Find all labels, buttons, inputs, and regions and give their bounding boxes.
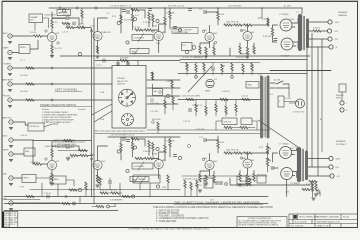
wire shielded cable dash-dot [95, 130, 145, 132]
jack J4 TAPE AMP [8, 82, 12, 86]
wire V1R cathode [51, 170, 53, 183]
resistor R82 [122, 195, 130, 197]
svg-text:R-69 1K: R-69 1K [195, 185, 202, 187]
wire network [66, 27, 91, 29]
capacitor C8 [173, 27, 176, 29]
svg-text:R-75: R-75 [259, 147, 263, 149]
ground J8 [9, 184, 13, 186]
wire tone network [121, 8, 145, 33]
jack J5 PHONO [8, 98, 12, 102]
svg-text:R-41: R-41 [250, 66, 254, 68]
pin circle V4-1 [202, 30, 204, 32]
resistor R24 (vertical) [213, 47, 215, 55]
wire bus y189.5 [30, 189, 180, 191]
node test point 10 [126, 169, 129, 172]
capacitor C39 box top [126, 63, 129, 65]
wire J5 to selector [12, 99, 112, 101]
resistor R98 (vertical) right of box [172, 96, 174, 104]
tube V3 12AX7 [154, 31, 163, 40]
svg-text:92V: 92V [56, 33, 60, 35]
svg-text:C-9: C-9 [199, 9, 202, 11]
svg-text:92V: 92V [56, 161, 60, 163]
resistor R26 (vertical) [246, 47, 248, 55]
wire feedback long left channel [60, 48, 310, 56]
svg-text:T-1: T-1 [296, 12, 299, 14]
resistor R102 (vertical) bl [85, 182, 87, 190]
capacitor C22 [66, 145, 69, 147]
resistor R85 (vertical) [190, 182, 192, 190]
wire grid row [224, 24, 258, 26]
svg-text:SPEAKER: SPEAKER [338, 11, 348, 14]
capacitor C38 box top [116, 63, 119, 65]
box bias network [246, 82, 259, 89]
ground V1R [50, 183, 54, 185]
resistor R9 [131, 9, 139, 11]
svg-text:R-25 R-26 22K: R-25 R-26 22K [236, 57, 249, 59]
speaker terminal 4 ohm [328, 37, 332, 41]
svg-text:R-17 100K: R-17 100K [166, 13, 175, 15]
T2 core [302, 149, 303, 181]
box preamp out top-left [29, 14, 43, 23]
tube V5 phase inverter [243, 31, 252, 40]
svg-text:FEEDBACK: FEEDBACK [240, 53, 250, 56]
fuse box F1 [278, 96, 284, 107]
node circle bl [65, 195, 67, 197]
svg-text:R-87: R-87 [248, 179, 252, 181]
svg-text:R-35: R-35 [185, 66, 189, 68]
capacitor C34 on B+ rail [188, 9, 191, 11]
svg-text:170V: 170V [101, 161, 106, 163]
svg-text:S-3: S-3 [46, 121, 49, 123]
ground J9 [9, 209, 13, 211]
ground J4 [8, 90, 12, 92]
legend box bottom-left [2, 212, 18, 229]
wire V4R bottom [200, 171, 214, 175]
box level set L [19, 45, 30, 54]
node test point 5 [156, 19, 159, 22]
svg-text:V-7 6BQ5: V-7 6BQ5 [279, 144, 289, 146]
resistor R101 bottom-left [26, 195, 34, 197]
wire splitter bottom R [240, 171, 254, 175]
node circle tuner line [51, 67, 53, 69]
resistor R89 (vertical) [311, 183, 313, 191]
node junction dot [225, 183, 228, 186]
svg-text:470K 1W: 470K 1W [224, 121, 232, 123]
wire feedback R [309, 182, 317, 192]
wire long vertical x318 [317, 62, 319, 176]
wire bottom-left nets [36, 178, 74, 196]
svg-text:4 Ω: 4 Ω [335, 38, 339, 41]
resistor R41 (vertical) [251, 63, 253, 71]
node on heater bus [73, 202, 76, 205]
pot circle mid top [185, 50, 189, 54]
node test point 8 [117, 150, 120, 153]
pin circle small b [82, 26, 84, 28]
ground J3 [8, 74, 12, 76]
svg-text:G: G [336, 47, 338, 49]
svg-text:TREBLE: TREBLE [52, 179, 60, 181]
wire J8 right [13, 177, 22, 179]
switch lever [44, 124, 58, 127]
svg-text:8 Ω: 8 Ω [336, 166, 340, 169]
svg-text:R-10: R-10 [112, 16, 116, 18]
arrow pot wiper [138, 33, 144, 42]
wire T3 primary to switch [270, 83, 275, 88]
wire J10 to eq [13, 122, 28, 125]
svg-text:R-38: R-38 [221, 66, 225, 68]
pin circle V4-2 [214, 41, 216, 43]
wire long bus y133 [95, 133, 260, 135]
svg-text:L: L [346, 103, 347, 105]
wire misc mid [153, 72, 173, 114]
resistor R37 (vertical) [203, 63, 205, 71]
svg-text:C-25 .02: C-25 .02 [183, 121, 190, 123]
node dot row [195, 76, 198, 79]
wire diagonal into selector 2 [94, 111, 112, 122]
resistor R18 (vertical) [217, 12, 219, 20]
box bass control L [130, 49, 149, 54]
svg-text:F: F [279, 101, 281, 103]
underline table heading [40, 106, 92, 108]
pin circle V4R-1 [202, 158, 204, 160]
power transformer T3 winding right [267, 77, 270, 137]
svg-text:R-80 470K R-81 47K: R-80 470K R-81 47K [100, 190, 117, 192]
jack J8 [9, 176, 13, 180]
ground at J1 [8, 42, 12, 44]
wire long left rail down (x91.5) [91, 28, 93, 197]
node test point 14 [131, 195, 134, 198]
resistor R45 (vertical) [195, 104, 197, 112]
svg-text:1 STEREO NORMAL: 1 STEREO NORMAL STEREO [42, 111, 69, 114]
cathode resistor R52 (vertical) [51, 173, 53, 181]
svg-text:R-72 R-73 22K: R-72 R-73 22K [236, 186, 249, 188]
pin circle small a [67, 25, 69, 27]
resistor R50 [34, 163, 42, 165]
svg-text:R-30 8.2: R-30 8.2 [313, 28, 320, 30]
pin circle V3R-1 [152, 157, 154, 159]
svg-text:4 Ω: 4 Ω [337, 175, 341, 178]
box bass R [130, 177, 149, 182]
resistor R12 (vertical) [148, 12, 150, 20]
svg-text:R-21 470K 360V: R-21 470K 360V [228, 6, 242, 8]
svg-text:C-3 .05: C-3 .05 [62, 32, 68, 34]
svg-text:R-29 470K: R-29 470K [263, 36, 272, 38]
wire V4 leads [209, 25, 211, 47]
svg-text:C-8 .005: C-8 .005 [133, 27, 140, 29]
capacitor C41 on tuner line [26, 67, 34, 69]
svg-text:R-34 1M: R-34 1M [166, 81, 173, 83]
contact circle right of box 3 [152, 121, 155, 124]
svg-text:R-6 470K: R-6 470K [20, 91, 28, 93]
svg-text:R-79: R-79 [20, 187, 24, 189]
svg-text:T-3: T-3 [258, 75, 261, 77]
node test point 15 [156, 185, 159, 188]
svg-text:C-20 .05: C-20 .05 [20, 135, 27, 137]
svg-text:LOUDNESS: LOUDNESS [134, 166, 145, 168]
ground cathode V1 [50, 56, 54, 58]
wire J1 to R1 [12, 35, 33, 37]
svg-text:F TREBLE: F TREBLE [136, 179, 146, 181]
wire J3 to selector [12, 67, 112, 69]
wire mid drops to bus [196, 62, 252, 64]
ground at J2 [8, 58, 12, 60]
T1 secondary winding [306, 20, 309, 48]
node dot rail 2 [217, 7, 219, 9]
resistor R73 (vertical) [246, 175, 248, 183]
ground J7 [9, 160, 13, 162]
svg-text:R-13 47K: R-13 47K [143, 22, 151, 24]
pot circle row C [187, 144, 190, 147]
box remote speaker [339, 84, 346, 92]
contact circle right of box 1 [151, 99, 154, 102]
wire tone net R [121, 137, 145, 160]
wire feedback long R [230, 178, 310, 185]
svg-text:SHEET 1 OF 1: SHEET 1 OF 1 [317, 225, 331, 227]
box loudness-volume L [132, 35, 153, 41]
resistor R21 [244, 24, 252, 26]
resistor R32 (vertical) [151, 72, 153, 80]
resistor R77 feedback R [309, 180, 317, 182]
svg-text:R-5 470K: R-5 470K [20, 75, 28, 77]
wire tap 4 R [308, 175, 330, 177]
resistor R61 [135, 157, 143, 159]
wire heavy bus 2 [178, 73, 307, 75]
junction circle rail 2 [76, 7, 78, 9]
svg-text:Function: Function [78, 108, 86, 111]
resistor R6 [77, 26, 85, 28]
resistor R76 (vertical) bias pot 2 [266, 158, 268, 166]
jack J2 TAPE L [8, 50, 12, 54]
wire secondary tap 16 ohm [309, 21, 328, 23]
capacitor C37 bottom mid [108, 181, 111, 183]
resistor R65 (vertical) [217, 140, 219, 148]
node test point 3 [133, 17, 136, 20]
wire heavy bus y73 [270, 70, 331, 72]
wire secondary common [309, 46, 329, 48]
capacitor C16 [188, 109, 191, 111]
svg-text:SELECTOR: SELECTOR [117, 81, 128, 83]
wire V8R cathode down [286, 180, 288, 197]
capacitor C40 [73, 22, 75, 25]
wire V7R plate to OPT2 [292, 149, 297, 155]
svg-text:LEFT CHANNEL: LEFT CHANNEL [55, 88, 78, 92]
wire J7 net [13, 140, 47, 164]
svg-text:R-50 100K: R-50 100K [30, 162, 39, 164]
wire bias pots [268, 143, 271, 172]
wire lower mid drops [196, 100, 236, 117]
wire V1 plate to coupling [52, 17, 66, 19]
resistor R36 (vertical) [195, 64, 197, 72]
svg-text:C-14 .1: C-14 .1 [96, 65, 102, 67]
ground V2 cathode [96, 56, 100, 58]
svg-text:LEVEL: LEVEL [20, 47, 26, 49]
svg-text:TAPE OUT: TAPE OUT [58, 12, 68, 15]
svg-text:160V: 160V [213, 161, 218, 163]
wire V4R leads [209, 153, 211, 175]
resistor R58 (vertical) [131, 142, 133, 150]
box filter can 3 [257, 175, 266, 183]
resistor R56 [131, 138, 139, 140]
wire to output grids R [258, 150, 278, 168]
svg-text:AUX: AUX [3, 135, 8, 138]
resistor R60 (vertical) [152, 143, 154, 151]
resistor R48 (vertical) [225, 106, 227, 114]
ground splitter [246, 56, 250, 58]
box channel b net 2 [241, 118, 252, 125]
wire tone mid [135, 20, 159, 30]
capacitor C24 [126, 140, 129, 142]
box f treble [133, 175, 160, 183]
wire V2 plate up [98, 18, 108, 31]
T1 core [303, 16, 304, 50]
jack J7 TAPE R [9, 152, 13, 156]
svg-text:PHONO: PHONO [2, 96, 10, 98]
resistor R23 (vertical) [205, 47, 207, 55]
svg-text:COPYRIGHT 1958 ALLIED RADIO C: COPYRIGHT 1958 ALLIED RADIO CORP 100 N. … [128, 228, 210, 231]
tube V2R [93, 160, 102, 169]
svg-text:SYSTEM R: SYSTEM R [336, 144, 347, 146]
wire: bottom heater bus 2 [4, 203, 268, 205]
svg-text:117V 60∼ AC: 117V 60∼ AC [293, 111, 305, 114]
svg-text:5. TONE RECORD: 5. TONE RECORD [156, 220, 177, 223]
node test point 2 [117, 21, 120, 24]
wire v1 19 line [52, 18, 66, 20]
svg-text:LOUDNESS: LOUDNESS [134, 38, 145, 40]
contact circle right of box 2 [159, 91, 162, 94]
cathode resistor R4 [51, 45, 53, 53]
svg-text:STEREO: STEREO [117, 78, 126, 80]
svg-text:C-17 .005: C-17 .005 [150, 111, 158, 113]
resistor R64 (vertical) [169, 139, 171, 147]
wire rail row C [108, 136, 180, 138]
wire V5R leads [247, 153, 249, 173]
tube V5R phase inverter [243, 159, 252, 168]
ground J6 [9, 146, 13, 148]
plate resistor R51 (vertical) [51, 149, 53, 157]
node circle tape line [51, 83, 53, 85]
resistor R49 (vertical) [235, 104, 237, 112]
svg-text:R-15 270K C-11 .05: R-15 270K C-11 .05 [168, 6, 184, 8]
resistor R44 [242, 98, 250, 100]
svg-text:C-35 .02: C-35 .02 [44, 193, 51, 195]
ground J5 [8, 106, 12, 108]
output tube V7R 6BQ5 [280, 147, 292, 159]
svg-text:S-2: S-2 [270, 94, 273, 96]
svg-text:R-64 100K: R-64 100K [166, 141, 175, 143]
wire drop x80 [79, 197, 81, 204]
pot circle mid top 2 [192, 46, 196, 50]
capacitor C26 [173, 155, 176, 157]
wire bottom mid extra [100, 177, 110, 190]
svg-text:98V: 98V [251, 32, 255, 34]
pot arrow bass R [134, 176, 139, 183]
svg-text:C-6: C-6 [106, 13, 109, 15]
svg-text:V-5B: V-5B [90, 154, 95, 156]
svg-text:BAL: BAL [154, 90, 157, 93]
resistor R94 (vertical) [157, 122, 159, 130]
wire rc net [69, 146, 93, 156]
ground below V1R [66, 158, 70, 160]
resistor R14 [135, 29, 143, 31]
svg-text:FEEDBACK PAIR: FEEDBACK PAIR [174, 31, 189, 34]
svg-text:R-83: R-83 [162, 187, 166, 189]
wire V3 plate [159, 24, 165, 31]
junction circle rail 1 [59, 7, 61, 9]
node test point 7 [166, 94, 169, 97]
svg-text:88V: 88V [162, 32, 166, 34]
node test point V2 cathode [78, 52, 81, 55]
svg-text:C-36: C-36 [285, 192, 289, 194]
cathode resistor R8 [96, 46, 98, 54]
capacitor C44 bottom-left [47, 195, 49, 198]
wire R1 to V1 grid [42, 35, 48, 37]
speaker terminal 4 R [330, 174, 334, 178]
resistor R1 [34, 35, 42, 37]
capacitor C32 [317, 191, 320, 193]
node test point 6 [178, 28, 181, 31]
box scratch filter L [182, 43, 193, 51]
box hum bal [24, 148, 35, 156]
svg-text:R-33 500K: R-33 500K [150, 103, 159, 105]
svg-text:1MEG: 1MEG [79, 24, 85, 26]
wire V3R circuit [165, 137, 170, 161]
box filter can [204, 178, 213, 188]
resistor R75 (vertical) bias pot [266, 146, 268, 154]
resistor R86 (vertical) [196, 180, 198, 188]
wire coupling row R [207, 136, 219, 153]
resistor R53 [70, 154, 78, 156]
node test point 12 [178, 156, 181, 159]
svg-text:TAPE AMP: TAPE AMP [2, 79, 13, 82]
svg-text:HUM: HUM [25, 151, 30, 153]
capacitor C2 [66, 17, 69, 19]
resistor R91 [79, 149, 87, 151]
wire zobel [317, 30, 328, 32]
wire V4 plate to OPT [293, 42, 298, 48]
svg-text:S-1B: S-1B [100, 119, 105, 121]
resistor R29 (vertical) grid V7 [271, 28, 273, 36]
wire r99 [81, 8, 83, 23]
svg-text:R-88 8.2: R-88 8.2 [306, 184, 313, 186]
wire selector outputs right [147, 80, 180, 104]
wire drops into selector box [118, 61, 138, 66]
underline left channel [55, 90, 82, 92]
title block bottom right [289, 214, 358, 228]
ground V4R cathode [204, 184, 208, 186]
wire grid row R [232, 152, 258, 154]
wire r98 [172, 96, 174, 110]
pin circle V2-1 [90, 30, 92, 32]
node test point 1 [62, 9, 65, 12]
svg-text:OUT: OUT [30, 20, 35, 22]
capacitor C5 [126, 11, 129, 13]
svg-text:R-31 470K: R-31 470K [120, 58, 129, 60]
tube V3R [154, 159, 163, 168]
svg-text:PHASING: PHASING [338, 14, 347, 17]
resistor R22 (vertical) [199, 46, 201, 54]
tube V4R [205, 160, 214, 169]
wire to output grids [258, 18, 278, 42]
svg-text:88V: 88V [162, 160, 166, 162]
tube V2 12AX7 [93, 31, 102, 40]
ground V2R [96, 185, 100, 187]
resistor R11 (vertical) [131, 14, 133, 22]
top border reinforcement [2, 0, 358, 2]
svg-text:220K 470K 47K: 220K 470K 47K [226, 150, 239, 152]
svg-text:F-1 2A: F-1 2A [285, 97, 291, 100]
wire: bottom bus 3 [4, 210, 118, 212]
svg-text:PHONO EQ: PHONO EQ [30, 126, 40, 128]
